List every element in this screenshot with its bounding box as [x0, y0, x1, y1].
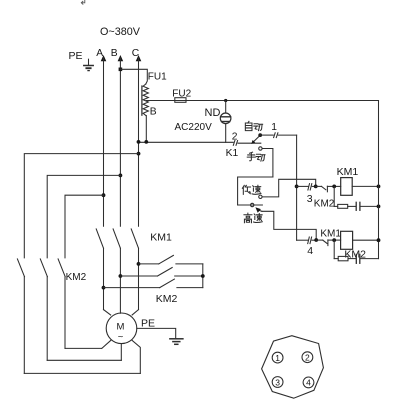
node rail rc1	[377, 205, 381, 209]
wire lamp top	[225, 101, 227, 114]
connector pin 3	[272, 377, 283, 388]
switch K1 arm	[251, 135, 260, 144]
wire row2 start	[297, 239, 308, 241]
wire row1 start	[297, 185, 309, 187]
svg-text:KM1: KM1	[150, 232, 172, 244]
wire motor stub bottom-mid	[120, 344, 122, 361]
svg-text:1: 1	[271, 122, 277, 133]
svg-text:KM2: KM2	[156, 293, 178, 305]
wire C feed	[24, 154, 138, 258]
connector pin 2	[302, 352, 313, 363]
wire c2 to rail	[360, 258, 378, 260]
motor M	[106, 313, 137, 344]
contactor KM2 left pole 1	[17, 259, 24, 374]
node B feed	[119, 174, 123, 178]
wire phase C lower	[138, 248, 140, 309]
coil KM2	[341, 231, 353, 249]
wire phase B upper	[119, 58, 121, 226]
wire phase A lower	[103, 248, 105, 309]
arrow phase A	[101, 55, 107, 61]
node C feed	[137, 152, 141, 156]
wire K1 feeder vertical	[296, 135, 298, 240]
arrow phase B	[118, 55, 124, 61]
contact K1 manual terminal	[259, 147, 262, 150]
wire low speed to KM1 branch	[262, 179, 316, 197]
wire rc1 lead	[334, 205, 338, 207]
contactor KM2 left pole 2	[40, 259, 47, 360]
wire row2 to coil	[328, 239, 341, 241]
node shorting bar	[201, 274, 205, 278]
node row2 rc tap	[332, 238, 336, 242]
wire lamp bottom	[225, 124, 227, 143]
label zidong (auto)	[245, 121, 262, 130]
wire manual out	[262, 149, 273, 178]
wire coil KM2 to rail	[353, 239, 379, 241]
node K1 auto	[258, 133, 262, 137]
svg-text:O~380V: O~380V	[100, 26, 141, 38]
wire A feed	[65, 195, 104, 258]
svg-text:B: B	[150, 107, 157, 118]
svg-text:4: 4	[307, 245, 313, 257]
contact 3 ticks	[308, 184, 312, 190]
svg-text:KM2: KM2	[314, 198, 335, 209]
wire contact1 to riser	[278, 134, 296, 136]
fuse FU2	[175, 98, 186, 103]
svg-text:KM1: KM1	[337, 166, 359, 178]
contact 1 ticks	[274, 133, 278, 138]
contact KM1 aux NO row2	[316, 240, 328, 246]
node row3 tap A	[102, 286, 106, 290]
wire auto to contact1	[260, 134, 273, 136]
svg-text:K1: K1	[226, 148, 239, 159]
resistor R1	[338, 204, 348, 208]
label gaosu (high speed)	[244, 213, 262, 223]
node row1 rc tap	[332, 185, 336, 189]
wire motor stub top-right	[132, 310, 138, 315]
contact KM2 aux NO row1	[316, 186, 328, 192]
node row2 join	[314, 238, 318, 242]
node rail row2	[377, 238, 381, 242]
contactor KM2 right pole 3	[104, 279, 203, 288]
contact selector common terminal	[251, 203, 254, 206]
ground PE top	[84, 59, 93, 70]
connector pin 1	[272, 352, 283, 363]
ground motor PE	[170, 339, 183, 345]
svg-text:~: ~	[118, 332, 124, 343]
arrow phase C	[136, 55, 142, 61]
connector pin 4	[303, 377, 314, 388]
wire shorting bar	[202, 264, 204, 288]
wire row2 mid	[312, 239, 316, 241]
coil KM1	[341, 178, 353, 196]
wire bottom rail middle	[47, 359, 121, 361]
wire bottom rail outer	[24, 372, 140, 374]
node B tap	[119, 68, 123, 72]
svg-text:A: A	[96, 48, 103, 59]
resistor R2	[338, 256, 348, 260]
contactor KM2 right pole 2	[120, 268, 202, 277]
svg-text:ND: ND	[205, 107, 221, 119]
svg-text:FU1: FU1	[148, 72, 167, 83]
svg-text:2: 2	[305, 353, 310, 363]
wire motor stub bottom-right	[132, 340, 140, 373]
wire phase B lower	[119, 248, 121, 313]
svg-text:B: B	[111, 48, 118, 59]
node row1 tap C	[137, 262, 141, 266]
wire r1 to c1	[348, 205, 356, 207]
transformer core bar	[141, 86, 143, 115]
svg-text:KM2: KM2	[66, 272, 87, 283]
contactor KM1 main pole 1	[96, 229, 103, 248]
svg-text:PE: PE	[141, 317, 155, 329]
node lamp top	[224, 99, 227, 102]
wire 220V rail	[146, 100, 378, 102]
wire motor PE	[137, 328, 176, 338]
wire B tap to FU1	[120, 69, 147, 84]
wire K1 common	[238, 142, 261, 144]
wire return rail	[378, 101, 380, 259]
node C transformer join	[137, 140, 141, 144]
contactor KM2 left pole 3	[58, 259, 65, 349]
svg-text:AC220V: AC220V	[175, 122, 213, 133]
wire r2 to c2	[348, 258, 356, 260]
node row2 tap B	[119, 274, 123, 278]
contactor KM2 right pole 1	[139, 255, 203, 264]
capacitor C2	[356, 254, 360, 263]
wire rc2 lead	[334, 258, 338, 260]
svg-text:4: 4	[306, 378, 311, 388]
wire phase A upper	[103, 58, 105, 226]
contact 2 ticks	[233, 141, 237, 146]
wire rc1 riser	[333, 186, 335, 206]
switch selector arm	[255, 207, 262, 213]
svg-text:KM1: KM1	[320, 228, 341, 239]
contact 4 ticks	[308, 237, 312, 244]
wire B feed	[47, 175, 120, 257]
svg-text:FU2: FU2	[172, 88, 191, 99]
lamp ND	[220, 113, 231, 124]
node A feed	[102, 193, 106, 197]
wire motor stub bottom-left	[102, 340, 111, 348]
contact low speed terminal	[259, 195, 262, 198]
wire high speed path	[262, 211, 316, 240]
wire speed selector common	[238, 204, 263, 206]
node row1 bridge	[314, 185, 318, 189]
svg-text:3: 3	[275, 377, 280, 387]
svg-text:3: 3	[307, 193, 313, 205]
node transformer bottom join	[144, 140, 148, 144]
wire bottom rail inner	[65, 347, 102, 349]
stray paragraph mark	[81, 0, 85, 4]
wire transformer bottom	[145, 116, 147, 143]
wire phase C upper	[138, 58, 140, 226]
wire coil KM1 to rail	[352, 185, 378, 187]
contactor KM1 main pole 2	[113, 229, 120, 248]
wire row1 to coil	[327, 185, 340, 187]
label disu (low speed)	[242, 185, 261, 194]
svg-text:1: 1	[275, 353, 280, 363]
svg-text:PE: PE	[69, 50, 83, 62]
connector housing	[262, 336, 324, 399]
wire motor stub top-left	[104, 310, 111, 315]
transformer winding B	[143, 84, 148, 116]
node feeder row1	[295, 185, 299, 189]
wire c1 to rail	[361, 205, 379, 207]
wire manual feed	[238, 177, 273, 205]
wire row1 mid	[312, 185, 316, 187]
wire rc2 riser	[333, 240, 335, 259]
contactor KM1 main pole 3	[131, 229, 138, 248]
capacitor C1	[356, 202, 360, 210]
wire control rail	[139, 141, 234, 143]
label shoudong (manual)	[247, 152, 265, 161]
node rail row1	[377, 185, 381, 189]
